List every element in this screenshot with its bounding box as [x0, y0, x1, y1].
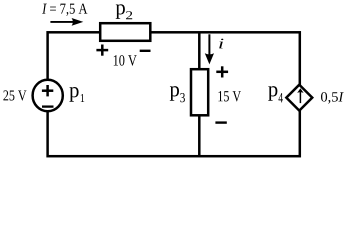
dependent source p4 — [286, 85, 312, 111]
value label 25 V — [3, 90, 26, 100]
minus sign (p2) — [140, 50, 151, 52]
label p2 — [116, 4, 132, 19]
voltage source p1 — [33, 80, 63, 112]
label p4 — [268, 86, 283, 102]
current arrow i — [208, 34, 210, 55]
wire middle branch — [198, 32, 201, 157]
label p3 — [170, 86, 185, 102]
label p1 — [69, 87, 84, 102]
plus sign (p3) — [216, 66, 228, 77]
resistor p2 — [100, 23, 150, 41]
value label 15 V — [218, 91, 241, 102]
minus sign (p1) — [42, 105, 54, 107]
value label 0,5I — [321, 92, 344, 104]
current label I = 7,5 A — [42, 4, 87, 16]
arrow inside p4 — [299, 92, 301, 103]
value label 10 V — [114, 55, 137, 66]
current label i — [219, 39, 223, 49]
current arrow I — [50, 21, 74, 23]
resistor p3 — [191, 69, 208, 115]
wire outer loop — [48, 32, 300, 156]
plus sign (p2) — [96, 45, 108, 56]
minus sign (p3) — [215, 121, 226, 123]
plus sign (p1) — [42, 85, 53, 96]
